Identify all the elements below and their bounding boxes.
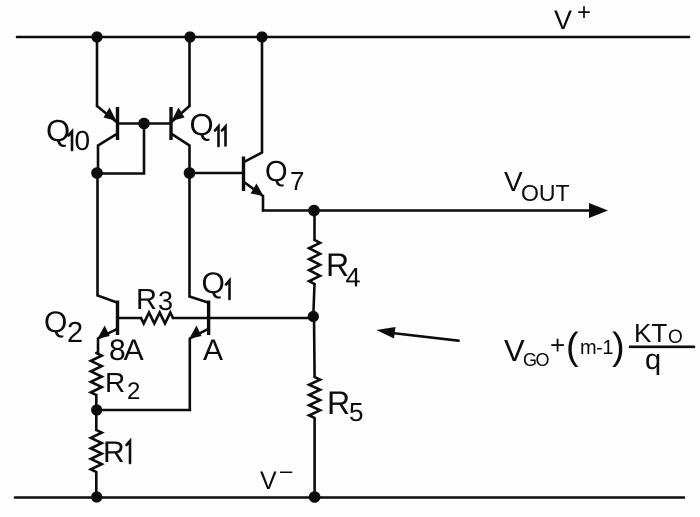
svg-text:R: R (327, 385, 350, 421)
svg-text:–: – (280, 458, 293, 483)
svg-text:V: V (260, 467, 277, 495)
svg-text:4: 4 (346, 263, 361, 293)
svg-text:): ) (612, 326, 625, 368)
svg-text:Q: Q (46, 113, 70, 148)
svg-text:2: 2 (127, 378, 140, 405)
svg-text:2: 2 (67, 317, 83, 349)
svg-text:R: R (136, 284, 157, 316)
svg-text:q: q (645, 344, 661, 376)
svg-text:GO: GO (523, 350, 550, 370)
svg-text:V: V (554, 5, 572, 35)
svg-text:Q: Q (44, 306, 67, 339)
svg-text:Q: Q (202, 267, 225, 300)
svg-text:3: 3 (158, 286, 173, 316)
svg-text:+: + (577, 0, 591, 26)
svg-text:m-1: m-1 (580, 337, 613, 359)
svg-text:OUT: OUT (521, 180, 570, 206)
svg-text:8A: 8A (109, 334, 144, 367)
svg-text:V: V (504, 333, 525, 368)
svg-text:R: R (103, 436, 125, 469)
svg-text:(: ( (566, 326, 579, 368)
svg-text:A: A (203, 334, 223, 367)
svg-text:5: 5 (349, 397, 363, 427)
svg-text:O: O (668, 327, 683, 348)
svg-text:0: 0 (75, 125, 91, 156)
svg-text:+: + (550, 330, 565, 360)
svg-text:7: 7 (290, 166, 304, 196)
svg-text:R: R (105, 367, 125, 398)
svg-text:Q: Q (265, 156, 288, 188)
svg-text:Q: Q (190, 107, 214, 142)
